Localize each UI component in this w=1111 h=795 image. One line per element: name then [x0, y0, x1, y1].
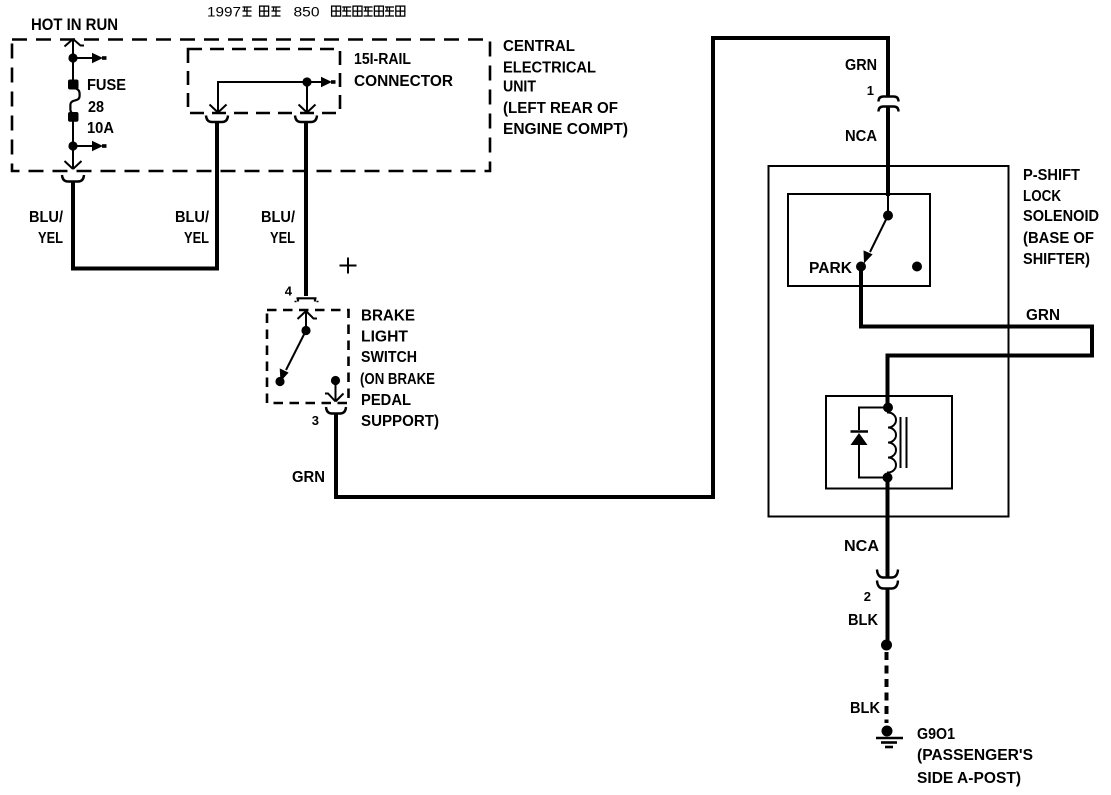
- wire GRN from brake switch to solenoid feed: [336, 38, 888, 497]
- switch blade brake switch: [280, 331, 306, 382]
- svg-text:YEL: YEL: [38, 230, 63, 247]
- svg-text:YEL: YEL: [270, 230, 295, 247]
- wire BLK to splice: [886, 589, 890, 642]
- svg-text:G9O1: G9O1: [917, 726, 955, 743]
- switch blade park switch: [864, 216, 889, 264]
- svg-text:BLK: BLK: [850, 700, 880, 717]
- brake light switch dashed box: [267, 310, 349, 403]
- svg-text:ENGINE COMPT): ENGINE COMPT): [503, 121, 628, 138]
- svg-text:BLU/: BLU/: [29, 209, 64, 226]
- label CENTRAL ELECTRICAL UNIT: [503, 38, 628, 138]
- arrow down at 15I-rail left pin: [210, 103, 227, 113]
- svg-text:2: 2: [864, 589, 871, 604]
- connector cup below fuse exit: [62, 175, 84, 182]
- contact brake switch output: [331, 376, 340, 385]
- arrow down brake switch output: [325, 381, 344, 402]
- central electrical unit dashed box: [12, 40, 490, 172]
- arrow right at fuse top tap: [73, 53, 107, 63]
- svg-text:ELECTRICAL: ELECTRICAL: [503, 60, 596, 77]
- wire into park switch: [887, 194, 889, 212]
- label P-SHIFT LOCK SOLENOID: [1023, 167, 1099, 268]
- svg-text:SHIFTER): SHIFTER): [1023, 251, 1090, 268]
- svg-text:HOT IN RUN: HOT IN RUN: [31, 15, 118, 34]
- svg-text:SWITCH: SWITCH: [361, 349, 417, 366]
- svg-text:P-SHIFT: P-SHIFT: [1023, 167, 1080, 184]
- svg-text:SUPPORT): SUPPORT): [361, 413, 439, 430]
- node fuse bottom tap: [68, 141, 77, 150]
- svg-text:1: 1: [867, 83, 874, 98]
- p-shift lock solenoid outer box: [769, 166, 1009, 517]
- connector 1 inline: [879, 97, 899, 112]
- svg-text:28: 28: [88, 99, 104, 116]
- node park switch input: [883, 211, 893, 221]
- svg-text:850: 850: [294, 4, 320, 20]
- splice node: [881, 640, 892, 651]
- label FUSE 28 10A: [87, 77, 126, 137]
- svg-text:LOCK: LOCK: [1023, 188, 1061, 205]
- arrow up at fuse top: [65, 39, 85, 50]
- solenoid coil: [888, 408, 896, 478]
- connector cup below 15I-rail left pin: [206, 116, 228, 123]
- label BLU/YEL 1: [29, 209, 64, 247]
- node solenoid bottom: [883, 473, 893, 483]
- svg-text:GRN: GRN: [292, 469, 325, 486]
- diode D1: [851, 432, 869, 446]
- svg-text:FUSE: FUSE: [87, 77, 126, 94]
- svg-text:SOLENOID: SOLENOID: [1023, 208, 1099, 225]
- solenoid core: [901, 417, 907, 468]
- label 15I-RAIL CONNECTOR: [354, 51, 453, 90]
- label BLU/YEL 2: [175, 209, 210, 247]
- node solenoid top: [883, 403, 893, 413]
- svg-text:3: 3: [312, 413, 319, 428]
- connector 2 inline: [877, 570, 898, 589]
- node 15I-rail junction: [302, 77, 311, 86]
- arrow down at 15I-rail right pin: [299, 103, 316, 113]
- wire BLU/YEL to brake light switch: [304, 122, 308, 296]
- plus mark: [340, 258, 357, 274]
- svg-text:PEDAL: PEDAL: [361, 392, 411, 409]
- arrow down at fuse exit: [65, 158, 82, 169]
- svg-text:UNIT: UNIT: [503, 79, 536, 96]
- svg-text:15I-RAIL: 15I-RAIL: [354, 51, 411, 68]
- node brake switch input: [301, 326, 310, 335]
- connector 4 socket: [295, 298, 319, 302]
- wire fuse to bottom tap: [72, 120, 74, 161]
- svg-text:NCA: NCA: [844, 538, 879, 555]
- contact right (unused): [912, 262, 922, 272]
- wire PARK to solenoid coil: [861, 267, 1092, 407]
- title: 1997年 富豪 850 档位互锁电路图: [207, 4, 405, 20]
- svg-text:BRAKE: BRAKE: [361, 308, 415, 325]
- wire fuse feed: [72, 46, 74, 84]
- svg-text:GRN: GRN: [845, 57, 877, 74]
- svg-text:CENTRAL: CENTRAL: [503, 38, 575, 55]
- ground G9O1: [876, 726, 903, 748]
- dashed wire BLK: [885, 652, 889, 723]
- label BRAKE LIGHT SWITCH: [360, 308, 439, 431]
- svg-text:BLU/: BLU/: [175, 209, 210, 226]
- contact PARK: [856, 262, 866, 272]
- 15I-rail connector dashed box: [188, 49, 340, 113]
- wire solenoid to connector 2: [886, 478, 890, 578]
- arrow right at 15I-rail junction: [307, 77, 336, 87]
- svg-text:10A: 10A: [87, 120, 114, 137]
- label BLU/YEL 3: [261, 209, 296, 247]
- wire NCA into solenoid unit: [886, 107, 890, 196]
- connector cup below 15I-rail right pin: [295, 116, 317, 123]
- arrow right at fuse bottom tap: [73, 141, 107, 151]
- svg-text:NCA: NCA: [845, 128, 877, 145]
- svg-text:BLK: BLK: [848, 612, 878, 629]
- svg-text:LIGHT: LIGHT: [361, 329, 408, 346]
- wire BLU/YEL from fuse down, right, and up to 15I-rail left pin: [73, 122, 217, 269]
- connector cup 3: [326, 407, 346, 414]
- arrow up into brake switch: [298, 311, 318, 330]
- svg-text:4: 4: [285, 284, 293, 299]
- solenoid box: [826, 396, 952, 489]
- svg-text:YEL: YEL: [184, 230, 209, 247]
- contact brake switch lower: [275, 377, 284, 386]
- wire inside 15I-rail connector: [218, 82, 307, 103]
- park switch box: [788, 194, 930, 286]
- svg-text:1997: 1997: [207, 4, 241, 20]
- wire 15I-rail right pin drop: [306, 82, 308, 103]
- svg-text:(PASSENGER'S: (PASSENGER'S: [917, 747, 1033, 764]
- svg-text:GRN: GRN: [1026, 307, 1060, 324]
- svg-text:SIDE A-POST): SIDE A-POST): [917, 770, 1021, 787]
- node fuse top tap: [68, 53, 77, 62]
- svg-text:BLU/: BLU/: [261, 209, 296, 226]
- svg-text:(ON BRAKE: (ON BRAKE: [360, 371, 435, 388]
- diode branch wires: [859, 408, 888, 431]
- svg-text:(LEFT REAR OF: (LEFT REAR OF: [503, 100, 618, 117]
- label G9O1: [917, 726, 1033, 787]
- svg-text:CONNECTOR: CONNECTOR: [354, 73, 453, 90]
- svg-text:(BASE OF: (BASE OF: [1023, 230, 1094, 247]
- svg-text:PARK: PARK: [809, 260, 852, 277]
- fuse FUSE 28 10A: [68, 80, 80, 122]
